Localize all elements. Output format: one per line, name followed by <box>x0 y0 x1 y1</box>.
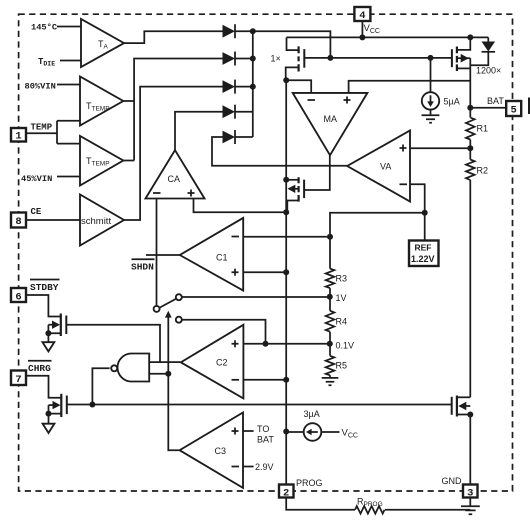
cropped element mark at right edge <box>528 98 530 115</box>
switch S1 lever <box>159 299 177 309</box>
pin 1 TEMP <box>11 128 26 143</box>
comparator TTEMP2 <box>80 136 123 186</box>
wire TEMP net from pin 1 split to TTEMP1 and TTEMP2 <box>26 121 80 144</box>
wire NAND output to Q5 gate and Q6 gate drive line <box>67 368 452 404</box>
svg-text:6: 6 <box>15 291 21 303</box>
svg-text:R5: R5 <box>336 361 348 371</box>
wire C2- input to PROG sense node <box>243 379 286 381</box>
wire MA/VA output node to diode D5 <box>212 137 347 166</box>
svg-text:BAT: BAT <box>487 96 504 106</box>
op-amp MA <box>293 93 368 155</box>
svg-text:3µA: 3µA <box>304 409 320 419</box>
wire MA non-inverting input tap from Q2 drain <box>349 81 471 93</box>
pin 3 GND <box>463 485 478 500</box>
diode D6 body diode VCC to BAT <box>470 37 495 65</box>
MA input polarity marks <box>308 99 316 101</box>
label CHRG with overline <box>28 361 52 374</box>
wire MA inverting input tap from Q1 drain node <box>286 80 311 93</box>
wire schmitt output to diode D3 <box>124 87 223 220</box>
wire switch upper contact to 1V tap <box>182 296 330 298</box>
C3 input polarity marks <box>232 428 239 435</box>
svg-text:STDBY: STDBY <box>30 282 59 293</box>
resistor R3 <box>326 269 335 288</box>
wire pin 7 to Q5 drain <box>26 376 61 398</box>
wire PMOS gate bus <box>304 57 452 59</box>
comparator TA <box>81 19 124 67</box>
svg-text:CHRG: CHRG <box>28 363 51 374</box>
switch S1 control arrow <box>165 311 172 318</box>
wire pin 6 to Q4 drain <box>26 295 61 317</box>
svg-text:schmitt: schmitt <box>81 216 111 227</box>
wire TDIE input to TA <box>60 60 81 62</box>
wire Q5 source and body to ground <box>49 405 62 423</box>
wire RPROG to GND pin ground <box>385 509 470 511</box>
wire 5uA source to ground <box>430 110 432 115</box>
svg-text:2: 2 <box>283 487 289 499</box>
node junction dots <box>45 28 473 434</box>
svg-text:R1: R1 <box>477 124 489 134</box>
diode D4 <box>223 105 236 119</box>
pin 2 PROG <box>279 485 294 500</box>
REF 1.22V box <box>409 241 439 267</box>
schmitt trigger <box>80 195 124 246</box>
svg-text:R3: R3 <box>336 274 348 284</box>
comparator TTEMP1 <box>80 77 123 126</box>
svg-text:145°C: 145°C <box>31 22 57 32</box>
wire C1+ input to PROG sense node <box>243 271 286 273</box>
transistor Q4 NMOS STDBY open-drain <box>48 314 66 337</box>
ground symbol below pin 3 GND <box>461 506 480 514</box>
comparator C2 <box>181 325 244 399</box>
ground open triangle at Q4 source <box>43 342 55 351</box>
wire TTEMP1/TTEMP2 outputs bus to diode D2 <box>123 59 223 161</box>
wire Q3 drain to PROG sense node <box>287 201 298 213</box>
svg-text:TO: TO <box>257 424 269 434</box>
svg-text:7: 7 <box>15 374 21 386</box>
wire VCC rail <box>287 36 489 38</box>
wire TA output to diode D1 <box>124 31 223 43</box>
resistor R5 <box>326 356 335 375</box>
CA input polarity marks <box>153 192 161 194</box>
svg-text:GND: GND <box>442 476 463 486</box>
svg-text:VA: VA <box>380 162 391 172</box>
diode D5 <box>223 130 236 144</box>
VA input polarity marks <box>400 145 407 152</box>
wire NAND input B stub <box>149 373 168 375</box>
svg-text:5µA: 5µA <box>444 97 460 107</box>
wire MA output stem to gate of Q3 <box>304 155 330 190</box>
svg-text:CE: CE <box>31 207 42 217</box>
wire C2+ input to 0.1V tap <box>243 343 329 345</box>
wire Q2 drain down through R1 R2 to Q6 drain <box>469 58 471 484</box>
svg-text:8: 8 <box>15 216 21 228</box>
transistor Q2 PMOS 1200x <box>452 37 470 71</box>
wire pin 6 NMOS gate line to NAND input A <box>66 325 160 362</box>
label SHDN with overline <box>131 259 155 272</box>
transistor Q6 NMOS battery disconnect <box>452 396 471 417</box>
wire Q4 source and body to ground <box>48 325 60 342</box>
wire pin 4 stem to VCC rail <box>361 21 363 37</box>
pin 4 VCC <box>354 7 370 22</box>
switch S1 lower contact <box>176 317 182 323</box>
svg-text:4: 4 <box>359 10 365 22</box>
ground open triangle at Q5 source <box>43 424 55 433</box>
wire BAT node to pin 5 <box>470 107 506 109</box>
wire PROG sense vertical net <box>285 80 287 484</box>
resistor R2 <box>466 160 475 180</box>
wire 3uA source to PROG sense node <box>286 431 304 433</box>
wire pin 2 stem to RPROG <box>286 498 355 510</box>
transistor Q5 NMOS CHRG open-drain <box>49 394 67 417</box>
comparator C3 <box>180 413 243 488</box>
wire CA output to diode D4 <box>175 112 223 151</box>
svg-text:1200×: 1200× <box>476 66 501 76</box>
pin 5 BAT <box>506 101 521 117</box>
current source I2 3uA <box>304 423 322 441</box>
svg-text:REF: REF <box>415 243 432 253</box>
svg-text:80%VIN: 80%VIN <box>25 81 56 91</box>
svg-text:45%VIN: 45%VIN <box>21 174 52 184</box>
resistor RPROG <box>355 506 385 514</box>
resistor R4 <box>326 311 335 332</box>
svg-text:1×: 1× <box>271 54 281 64</box>
C1 input polarity marks <box>232 236 240 238</box>
C2 input polarity marks <box>232 340 239 347</box>
svg-text:0.1V: 0.1V <box>336 341 355 351</box>
svg-text:CA: CA <box>168 174 181 184</box>
comparator C1 <box>180 218 243 291</box>
wire diode cathode bus to PMOS gate bus <box>253 31 331 137</box>
pin 6 STDBY <box>11 288 26 303</box>
ground symbol below 5uA source <box>422 115 440 123</box>
svg-text:PROG: PROG <box>296 478 323 488</box>
diode D1 <box>223 24 236 38</box>
wire switch lower contact to C2+ riser <box>182 320 266 344</box>
transistor Q1 PMOS 1x <box>286 37 305 80</box>
wire CE input from pin 8 to schmitt <box>26 219 80 221</box>
diode D3 <box>223 80 236 94</box>
svg-text:5: 5 <box>511 105 517 117</box>
svg-text:2.9V: 2.9V <box>255 462 274 472</box>
wire pin 3 stem to ground <box>469 498 471 507</box>
wire C1 output SHDN line <box>146 254 180 256</box>
op-amp CA <box>146 150 205 198</box>
wire 80%VIN input to TTEMP1 <box>57 84 80 86</box>
svg-text:1V: 1V <box>336 293 347 303</box>
wire VA- input to REF and R3 top node <box>330 184 425 268</box>
svg-text:R4: R4 <box>336 317 348 327</box>
ground symbol below R5 <box>322 378 339 385</box>
svg-text:1: 1 <box>15 131 21 143</box>
pin 8 CE <box>11 213 26 229</box>
wire switch control line from arrow through NAND input B to C3 output <box>168 317 179 450</box>
wire C2 output to NAND input A line <box>149 361 180 363</box>
op-amp VA <box>347 131 410 202</box>
svg-text:MA: MA <box>324 114 338 124</box>
switch S1 upper contact <box>176 294 182 300</box>
transistor Q3 PMOS gate driver follower <box>288 177 305 201</box>
wire diode cathode stubs to bus <box>235 31 253 137</box>
wire CA- input riser to switch pole <box>156 199 158 307</box>
svg-text:TEMP: TEMP <box>31 123 53 133</box>
pin 7 CHRG <box>11 371 26 386</box>
resistor R1 <box>466 118 475 140</box>
wire 145C input to TA <box>57 26 81 28</box>
wire Q3 source stub <box>286 179 298 181</box>
label STDBY with overline <box>30 280 60 294</box>
wire R divider column R3 R4 R5 <box>329 288 331 378</box>
svg-text:C3: C3 <box>215 446 227 456</box>
wire VA+ input to R1/R2 junction <box>410 147 470 149</box>
svg-text:R2: R2 <box>477 166 489 176</box>
diode D2 <box>223 52 236 66</box>
wire 5uA source stem from gate bus <box>430 58 432 92</box>
wire CA+ input line to PROG sense node <box>194 199 287 213</box>
C3 input stubs <box>243 431 254 467</box>
svg-text:1.22V: 1.22V <box>411 254 435 264</box>
svg-text:3: 3 <box>467 487 473 499</box>
wire 45%VIN input to TTEMP2 <box>57 176 80 178</box>
current source I1 5uA <box>422 92 439 109</box>
wire C1- input to R3 top node <box>243 236 330 238</box>
switch S1 pole contact <box>154 306 160 312</box>
svg-text:C2: C2 <box>216 358 228 368</box>
svg-text:SHDN: SHDN <box>131 262 154 273</box>
wire 3uA source to VCC stub <box>321 431 339 433</box>
svg-text:BAT: BAT <box>257 435 274 445</box>
svg-text:C1: C1 <box>216 253 228 263</box>
NAND gate U1 <box>111 354 149 382</box>
